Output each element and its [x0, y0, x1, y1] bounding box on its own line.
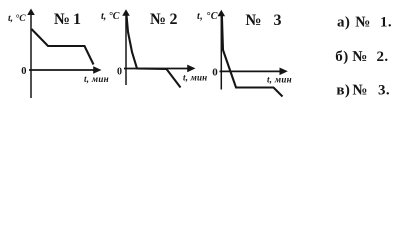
svg-text:t, мин: t, мин	[84, 74, 109, 84]
svg-text:t, °C: t, °C	[101, 11, 120, 22]
svg-text:а)№1.: а)№1.	[337, 14, 392, 30]
svg-text:t, °C: t, °C	[8, 13, 26, 24]
graph 2 curve	[126, 14, 180, 88]
svg-text:№3: №3	[246, 12, 282, 29]
svg-text:№2: №2	[150, 11, 178, 28]
svg-text:t, мин: t, мин	[183, 73, 207, 83]
svg-text:в)№3.: в)№3.	[336, 83, 390, 99]
svg-text:t, °C: t, °C	[197, 11, 218, 22]
svg-text:0: 0	[212, 67, 218, 79]
graph 3 x-axis	[220, 68, 288, 76]
svg-text:№1: №1	[54, 11, 81, 28]
graph 3 y-axis	[218, 10, 226, 90]
graph 1 x-axis	[29, 66, 102, 74]
graph 2 y-axis	[122, 9, 130, 85]
graph 2 x-axis	[124, 65, 196, 73]
svg-text:0: 0	[21, 66, 26, 77]
graph 3 curve	[222, 13, 283, 97]
svg-text:t, мин: t, мин	[267, 75, 292, 85]
svg-text:б)№2.: б)№2.	[335, 49, 388, 65]
graph 1 curve	[32, 29, 94, 65]
graph 1 y-axis	[27, 9, 35, 99]
svg-text:0: 0	[117, 67, 122, 78]
